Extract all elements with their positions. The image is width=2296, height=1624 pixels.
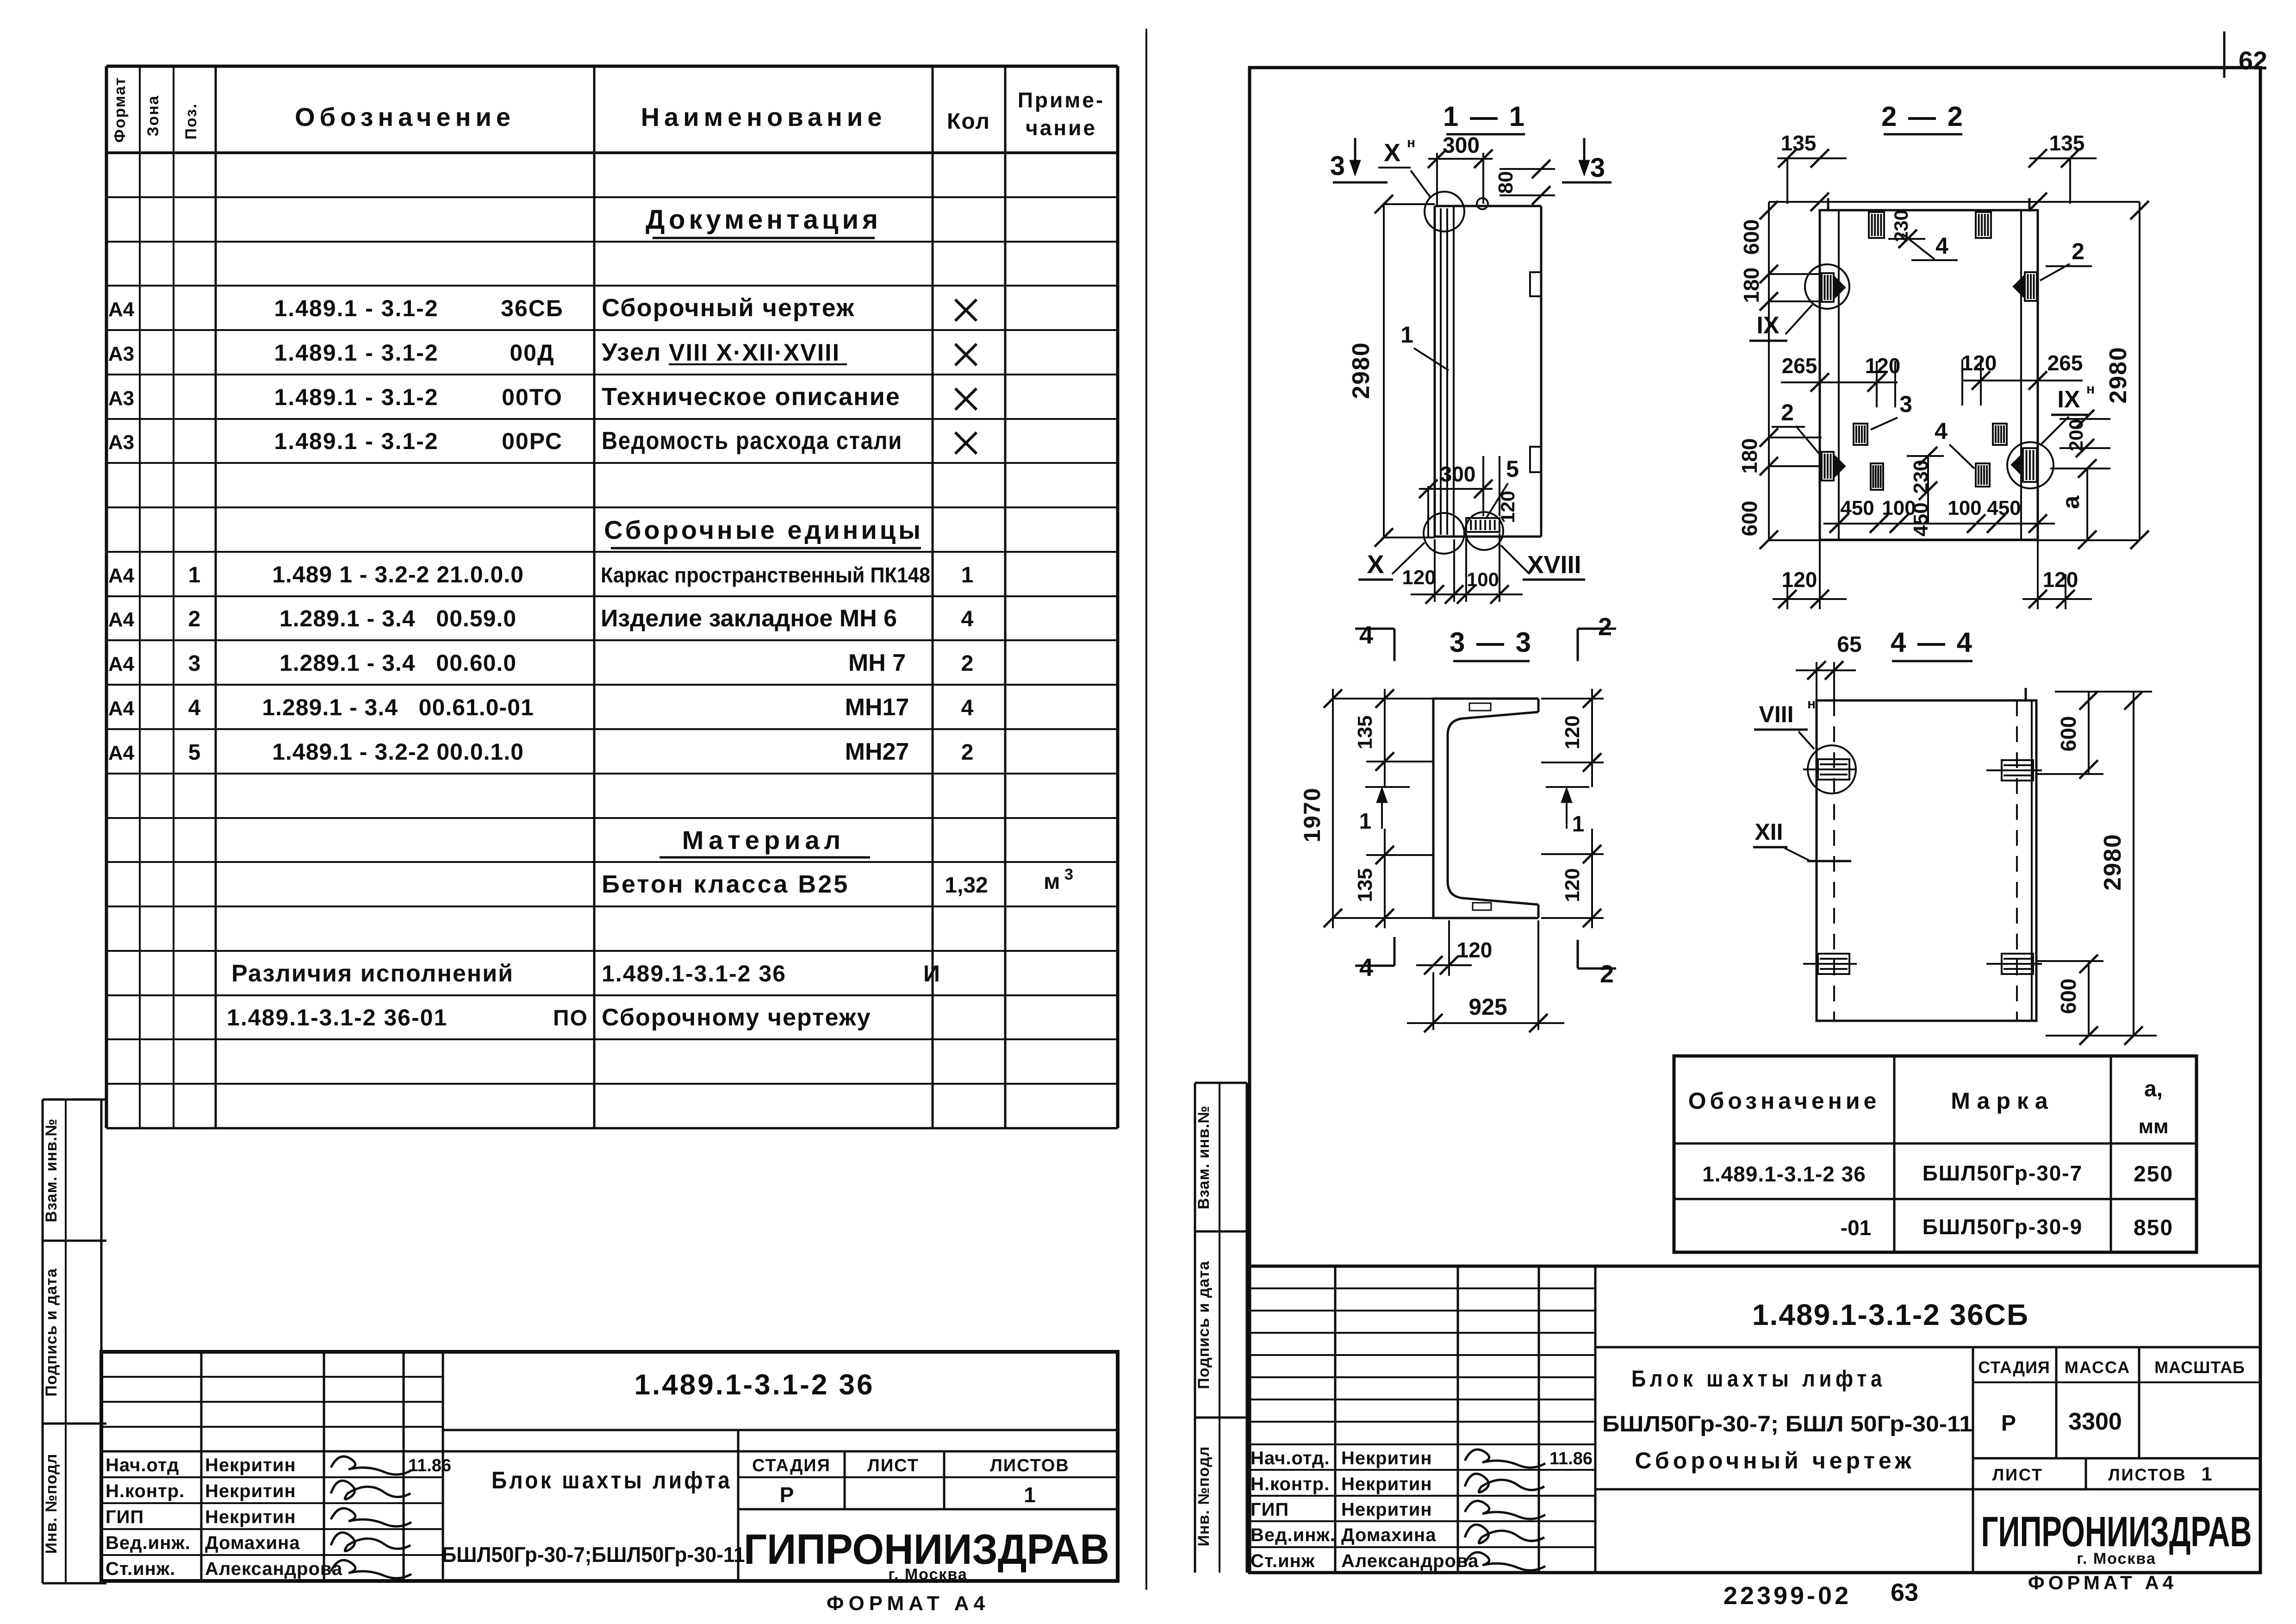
svg-text:120: 120 xyxy=(1561,715,1584,749)
svg-text:100: 100 xyxy=(1882,497,1916,519)
svg-text:1.489.1 - 3.2-2 00.0.1.0: 1.489.1 - 3.2-2 00.0.1.0 xyxy=(272,739,524,765)
svg-text:Ст.инж: Ст.инж xyxy=(1251,1551,1315,1571)
svg-text:1.289.1 - 3.4 00.61.0-01: 1.289.1 - 3.4 00.61.0-01 xyxy=(262,694,534,720)
svg-text:Кол: Кол xyxy=(947,109,990,134)
svg-text:2980: 2980 xyxy=(2099,833,2126,891)
svg-text:135: 135 xyxy=(2049,131,2085,155)
svg-text:265: 265 xyxy=(2047,351,2083,375)
svg-text:ЛИСТ: ЛИСТ xyxy=(867,1456,919,1475)
svg-text:3: 3 xyxy=(1899,391,1912,417)
svg-text:Р: Р xyxy=(780,1483,794,1507)
svg-text:ГИП: ГИП xyxy=(106,1507,144,1527)
svg-text:120: 120 xyxy=(1402,566,1436,589)
svg-text:1: 1 xyxy=(961,563,974,587)
svg-text:1.489.1-3.1-2 36-01: 1.489.1-3.1-2 36-01 xyxy=(227,1005,448,1031)
svg-text:Нач.отд.: Нач.отд. xyxy=(1251,1448,1330,1468)
svg-text:А3: А3 xyxy=(108,431,134,454)
svg-text:4: 4 xyxy=(1359,621,1373,649)
svg-text:1.489.1 - 3.1-2: 1.489.1 - 3.1-2 xyxy=(274,428,438,454)
svg-text:Блок шахты лифта: Блок шахты лифта xyxy=(1631,1366,1886,1392)
svg-text:Александрова: Александрова xyxy=(1341,1551,1479,1571)
svg-text:4: 4 xyxy=(1935,418,1948,444)
svg-text:XVIII: XVIII xyxy=(1527,551,1581,579)
svg-text:135: 135 xyxy=(1354,715,1376,749)
svg-text:2: 2 xyxy=(1781,400,1794,425)
svg-text:120: 120 xyxy=(1865,354,1901,378)
svg-text:Сборочные единицы: Сборочные единицы xyxy=(604,515,923,544)
svg-text:Различия исполнений: Различия исполнений xyxy=(231,960,514,987)
svg-text:Бетон класса В25: Бетон класса В25 xyxy=(602,870,849,898)
svg-text:00РС: 00РС xyxy=(502,428,563,454)
svg-text:1970: 1970 xyxy=(1299,787,1325,842)
svg-text:БШЛ50Гр-30-7;БШЛ50Гр-30-11: БШЛ50Гр-30-7;БШЛ50Гр-30-11 xyxy=(442,1543,745,1567)
svg-text:Взам. инв.№: Взам. инв.№ xyxy=(1195,1106,1213,1210)
svg-text:-01: -01 xyxy=(1841,1216,1871,1240)
svg-text:ФОРМАТ А4: ФОРМАТ А4 xyxy=(827,1592,989,1615)
svg-text:Некритин: Некритин xyxy=(205,1507,296,1527)
svg-text:1.489.1 - 3.1-2: 1.489.1 - 3.1-2 xyxy=(274,384,438,410)
svg-text:1.489.1-3.1-2 36СБ: 1.489.1-3.1-2 36СБ xyxy=(1752,1298,2029,1331)
svg-text:2980: 2980 xyxy=(2105,346,2132,404)
svg-text:Инв. №подл: Инв. №подл xyxy=(1195,1446,1213,1547)
svg-text:МАССА: МАССА xyxy=(2065,1358,2130,1377)
svg-text:Вед.инж.: Вед.инж. xyxy=(106,1533,191,1553)
svg-text:00Д: 00Д xyxy=(510,340,554,366)
svg-text:2: 2 xyxy=(961,651,974,676)
svg-text:300: 300 xyxy=(1440,462,1476,486)
svg-text:1: 1 xyxy=(2201,1463,2212,1485)
svg-text:мм: мм xyxy=(2138,1115,2168,1138)
svg-text:IX: IX xyxy=(2057,386,2080,413)
svg-text:3: 3 xyxy=(188,651,201,676)
svg-text:МН 7: МН 7 xyxy=(848,650,906,676)
svg-text:120: 120 xyxy=(1961,351,1997,375)
svg-text:г. Москва: г. Москва xyxy=(888,1566,968,1583)
svg-text:А3: А3 xyxy=(108,387,134,410)
svg-text:Александрова: Александрова xyxy=(205,1559,342,1579)
svg-text:Р: Р xyxy=(2001,1411,2016,1436)
svg-text:1,32: 1,32 xyxy=(945,873,988,898)
svg-text:Документация: Документация xyxy=(646,205,882,235)
svg-text:63: 63 xyxy=(1891,1579,1918,1606)
svg-text:135: 135 xyxy=(1354,868,1376,902)
svg-text:Подпись и дата: Подпись и дата xyxy=(43,1268,60,1397)
svg-text:Техническое описание: Техническое описание xyxy=(602,383,901,411)
svg-text:н: н xyxy=(1407,135,1415,150)
svg-text:Некритин: Некритин xyxy=(205,1455,296,1475)
svg-text:Некритин: Некритин xyxy=(1341,1474,1432,1494)
svg-text:VIII: VIII xyxy=(1759,701,1793,727)
svg-text:3: 3 xyxy=(1330,151,1345,181)
svg-text:a: a xyxy=(2058,495,2084,509)
svg-text:65: 65 xyxy=(1837,632,1861,657)
svg-text:00ТО: 00ТО xyxy=(502,384,563,410)
svg-text:1.489 1 - 3.2-2 21.0.0.0: 1.489 1 - 3.2-2 21.0.0.0 xyxy=(272,562,524,587)
svg-text:1: 1 xyxy=(1400,322,1413,348)
svg-text:Сборочный чертеж: Сборочный чертеж xyxy=(602,294,855,322)
svg-text:XII: XII xyxy=(1755,819,1783,845)
svg-text:г. Москва: г. Москва xyxy=(2077,1550,2156,1568)
svg-text:1.289.1 - 3.4 00.60.0: 1.289.1 - 3.4 00.60.0 xyxy=(280,650,516,676)
svg-text:Вед.инж.: Вед.инж. xyxy=(1251,1525,1336,1545)
svg-text:Домахина: Домахина xyxy=(205,1533,300,1553)
svg-text:4: 4 xyxy=(1935,233,1948,259)
svg-text:1: 1 xyxy=(1024,1483,1036,1507)
svg-text:1.489.1 - 3.1-2: 1.489.1 - 3.1-2 xyxy=(274,295,438,321)
svg-text:120: 120 xyxy=(1457,938,1493,962)
svg-text:2: 2 xyxy=(1600,960,1614,988)
svg-text:2 — 2: 2 — 2 xyxy=(1881,101,1965,132)
svg-text:120: 120 xyxy=(1782,568,1817,592)
svg-text:2: 2 xyxy=(2072,238,2084,264)
svg-text:Ведомость расхода стали: Ведомость расхода стали xyxy=(602,427,902,455)
svg-text:м: м xyxy=(1044,869,1060,894)
svg-text:И: И xyxy=(923,961,940,987)
svg-text:80: 80 xyxy=(1494,171,1517,194)
svg-text:ЛИСТ: ЛИСТ xyxy=(1992,1465,2043,1484)
svg-text:1.489.1-3.1-2 36: 1.489.1-3.1-2 36 xyxy=(634,1369,874,1401)
svg-text:Домахина: Домахина xyxy=(1341,1525,1436,1545)
svg-text:Изделие закладное МН 6: Изделие закладное МН 6 xyxy=(601,605,897,632)
svg-text:1.489.1-3.1-2 36: 1.489.1-3.1-2 36 xyxy=(1702,1162,1866,1186)
svg-text:180: 180 xyxy=(1737,438,1761,474)
svg-text:ГИПРОНИИЗДРАВ: ГИПРОНИИЗДРАВ xyxy=(1981,1508,2252,1555)
svg-text:А4: А4 xyxy=(108,697,135,720)
svg-text:Н.контр.: Н.контр. xyxy=(1251,1474,1330,1494)
svg-text:МАСШТАБ: МАСШТАБ xyxy=(2154,1358,2245,1377)
svg-text:Зона: Зона xyxy=(144,95,162,137)
svg-text:Сборочный чертеж: Сборочный чертеж xyxy=(1635,1448,1915,1474)
svg-text:120: 120 xyxy=(1561,868,1584,902)
svg-text:Материал: Материал xyxy=(682,825,845,855)
svg-text:БШЛ50Гр-30-9: БШЛ50Гр-30-9 xyxy=(1923,1215,2083,1239)
svg-text:IX: IX xyxy=(1756,312,1779,339)
svg-text:2: 2 xyxy=(1598,613,1612,641)
svg-text:ПО: ПО xyxy=(553,1006,588,1031)
svg-text:н: н xyxy=(2086,381,2095,397)
svg-text:2: 2 xyxy=(188,607,201,631)
svg-text:22399-02: 22399-02 xyxy=(1724,1582,1851,1610)
svg-text:265: 265 xyxy=(1782,354,1817,378)
svg-text:Формат: Формат xyxy=(111,77,129,143)
svg-text:а,: а, xyxy=(2144,1077,2163,1101)
svg-text:4: 4 xyxy=(961,696,974,720)
svg-text:СТАДИЯ: СТАДИЯ xyxy=(752,1456,831,1475)
svg-text:Марка: Марка xyxy=(1951,1088,2054,1114)
svg-text:1: 1 xyxy=(1572,812,1585,837)
svg-text:600: 600 xyxy=(1739,219,1763,255)
svg-text:А3: А3 xyxy=(108,343,134,365)
svg-text:Н.контр.: Н.контр. xyxy=(106,1481,185,1501)
svg-text:Узел: Узел xyxy=(602,338,661,366)
svg-text:А4: А4 xyxy=(108,298,135,321)
svg-text:200: 200 xyxy=(2065,419,2087,451)
svg-text:11.86: 11.86 xyxy=(1549,1449,1593,1468)
svg-text:11.86: 11.86 xyxy=(408,1456,451,1475)
svg-text:850: 850 xyxy=(2134,1216,2173,1240)
svg-text:БШЛ50Гр-30-7; БШЛ 50Гр-30-11: БШЛ50Гр-30-7; БШЛ 50Гр-30-11 xyxy=(1602,1412,1972,1437)
svg-text:А4: А4 xyxy=(108,742,135,764)
svg-text:ФОРМАТ А4: ФОРМАТ А4 xyxy=(2028,1572,2177,1593)
svg-text:5: 5 xyxy=(1506,456,1519,482)
svg-text:1: 1 xyxy=(188,563,201,587)
svg-text:100: 100 xyxy=(1467,568,1499,590)
svg-text:Сборочному чертежу: Сборочному чертежу xyxy=(602,1004,871,1031)
svg-text:1.489.1-3.1-2 36: 1.489.1-3.1-2 36 xyxy=(602,961,786,987)
svg-text:X: X xyxy=(1367,550,1384,579)
svg-text:МН17: МН17 xyxy=(845,694,909,721)
svg-text:А4: А4 xyxy=(108,653,135,675)
svg-text:250: 250 xyxy=(2134,1162,2173,1187)
svg-text:3: 3 xyxy=(1590,153,1605,183)
svg-text:Обозначение: Обозначение xyxy=(295,102,515,131)
svg-text:4: 4 xyxy=(188,696,201,720)
svg-text:Некритин: Некритин xyxy=(1341,1448,1432,1468)
svg-text:А4: А4 xyxy=(108,564,135,587)
svg-text:3300: 3300 xyxy=(2068,1408,2122,1435)
svg-text:600: 600 xyxy=(1737,501,1761,537)
svg-text:Поз.: Поз. xyxy=(182,103,200,139)
svg-text:Ст.инж.: Ст.инж. xyxy=(106,1559,175,1579)
svg-text:СТАДИЯ: СТАДИЯ xyxy=(1978,1358,2050,1377)
svg-text:Нач.отд: Нач.отд xyxy=(106,1455,179,1475)
svg-text:135: 135 xyxy=(1781,131,1817,155)
svg-text:н: н xyxy=(1807,696,1816,712)
svg-text:2: 2 xyxy=(961,740,974,765)
svg-text:Обозначение: Обозначение xyxy=(1688,1088,1880,1114)
svg-text:300: 300 xyxy=(1443,133,1480,158)
svg-text:Некритин: Некритин xyxy=(1341,1499,1432,1520)
svg-text:62: 62 xyxy=(2239,46,2267,75)
svg-text:Взам. инв.№: Взам. инв.№ xyxy=(43,1118,60,1223)
svg-text:450: 450 xyxy=(1987,497,2021,519)
svg-text:1 — 1: 1 — 1 xyxy=(1443,101,1526,132)
svg-text:Каркас пространственный ПК148: Каркас пространственный ПК148 xyxy=(601,563,930,587)
svg-text:Инв. №подл: Инв. №подл xyxy=(43,1454,60,1554)
svg-text:4: 4 xyxy=(1359,954,1373,981)
svg-text:600: 600 xyxy=(2056,979,2080,1014)
svg-text:3 — 3: 3 — 3 xyxy=(1450,627,1533,658)
svg-text:А4: А4 xyxy=(108,608,135,631)
svg-text:180: 180 xyxy=(1739,268,1763,303)
svg-text:925: 925 xyxy=(1468,994,1507,1020)
svg-text:450: 450 xyxy=(1840,497,1874,519)
svg-text:ЛИСТОВ: ЛИСТОВ xyxy=(990,1456,1070,1475)
svg-text:36СБ: 36СБ xyxy=(501,295,564,321)
svg-text:X: X xyxy=(1384,139,1400,167)
svg-text:600: 600 xyxy=(2056,716,2080,752)
svg-text:2980: 2980 xyxy=(1348,342,1375,399)
svg-text:120: 120 xyxy=(2043,568,2078,592)
svg-text:Некритин: Некритин xyxy=(205,1481,296,1501)
svg-text:Подпись и дата: Подпись и дата xyxy=(1195,1261,1213,1389)
svg-text:МН27: МН27 xyxy=(845,738,909,765)
svg-text:4: 4 xyxy=(961,607,974,631)
svg-text:5: 5 xyxy=(188,740,201,765)
svg-text:100: 100 xyxy=(1948,497,1981,519)
svg-text:3: 3 xyxy=(1064,866,1073,883)
svg-text:Приме-: Приме- xyxy=(1018,88,1105,112)
svg-text:4 — 4: 4 — 4 xyxy=(1891,627,1974,658)
svg-text:1.489.1 - 3.1-2: 1.489.1 - 3.1-2 xyxy=(274,340,438,366)
svg-text:Блок шахты лифта: Блок шахты лифта xyxy=(492,1467,732,1494)
svg-text:БШЛ50Гр-30-7: БШЛ50Гр-30-7 xyxy=(1923,1161,2083,1185)
svg-text:1: 1 xyxy=(1359,809,1372,834)
svg-text:чание: чание xyxy=(1026,116,1097,140)
svg-text:VIII X·XII·XVIII: VIII X·XII·XVIII xyxy=(669,339,840,366)
svg-text:1.289.1 - 3.4 00.59.0: 1.289.1 - 3.4 00.59.0 xyxy=(280,606,516,631)
svg-text:Наименование: Наименование xyxy=(641,102,887,131)
svg-text:ГИП: ГИП xyxy=(1251,1499,1289,1520)
svg-text:ЛИСТОВ: ЛИСТОВ xyxy=(2108,1465,2186,1484)
